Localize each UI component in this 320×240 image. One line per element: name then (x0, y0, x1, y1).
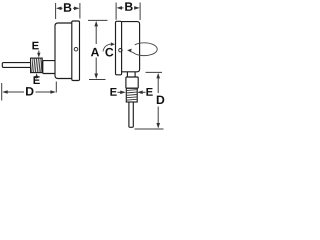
threaded section (31, 58, 43, 73)
stem tube (2, 63, 30, 68)
label A (91, 48, 99, 56)
dimension E (left figure, lower) (36, 77, 38, 79)
dimension D (right figure) (135, 72, 164, 129)
pivot screw (left figure) (74, 47, 78, 51)
case (right figure) (122, 22, 140, 72)
dimension D (left figure) (2, 82, 57, 101)
threaded section (right figure) (126, 88, 137, 102)
thread hatch (right) (127, 90, 137, 100)
label D (left) (26, 87, 33, 95)
neck (127, 72, 135, 77)
hex nut (43, 61, 55, 74)
bezel ring (72, 21, 80, 81)
thread hatch (32, 59, 42, 73)
dimension B (right figure) (116, 3, 140, 21)
case (round body edge-on) (55, 23, 72, 79)
extension line bottom (89, 79, 106, 81)
pivot screw (right figure) (119, 49, 122, 52)
dimension E (left figure, upper) (32, 42, 38, 50)
bezel ring (right figure) (116, 21, 122, 75)
label B (right) (125, 2, 132, 10)
rotation swoosh (big ellipse arrow) (131, 43, 158, 56)
label B (left) (64, 3, 71, 11)
extension line top (88, 19, 108, 21)
stem (right figure) (129, 102, 133, 127)
dimension E (right figure) (110, 88, 116, 96)
dimension B (left figure) (56, 3, 80, 19)
label C and small curved arrow (105, 48, 113, 57)
hex nut (right figure) (126, 77, 138, 88)
label D (right) (157, 96, 164, 104)
dim line A (95, 26, 97, 75)
